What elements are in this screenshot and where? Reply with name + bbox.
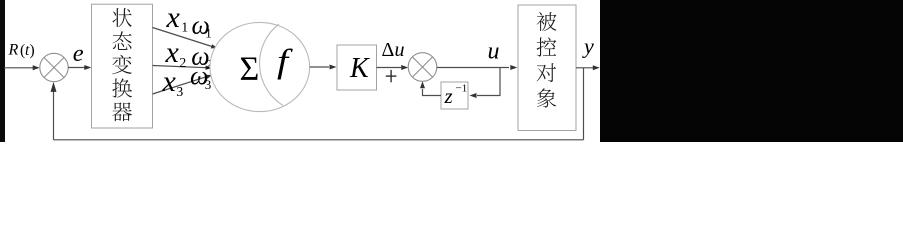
wire x1 to neuron (153, 28, 213, 47)
summing junction S2 (408, 53, 437, 82)
left black margin (0, 0, 5, 142)
svg-text:u: u (395, 39, 405, 61)
arrowhead into K (330, 65, 337, 70)
text 态 (state transformer) (112, 31, 131, 50)
right black region (600, 0, 903, 142)
delay block z^-1 (441, 82, 468, 109)
plant box (518, 5, 576, 131)
text 象 (plant) (537, 88, 556, 107)
arrowhead x2 into neuron (205, 66, 212, 70)
svg-text:R: R (8, 42, 19, 59)
svg-text:z: z (444, 84, 453, 108)
arrowhead into state transformer (84, 65, 91, 70)
text 换 (state transformer) (112, 78, 132, 97)
svg-text:K: K (349, 53, 370, 84)
wire S2 to plant (437, 67, 509, 69)
state transformer box (92, 4, 153, 128)
svg-text:Σ: Σ (240, 51, 260, 88)
wire u tap down to z-block (477, 68, 500, 96)
wire x2 to neuron (153, 66, 207, 68)
svg-text:u: u (488, 38, 500, 64)
wire e to state transformer (68, 67, 85, 69)
svg-text:1: 1 (205, 26, 212, 41)
arrowhead x3 into neuron (206, 75, 213, 79)
arrowhead feedback into S1 (51, 82, 57, 92)
feedback wire bottom (54, 139, 584, 141)
arrowhead x1 into neuron (211, 44, 218, 48)
text 被 (plant) (537, 12, 557, 31)
svg-text:e: e (73, 40, 84, 67)
arrowhead into summing junction S1 (33, 65, 40, 70)
svg-text:−1: −1 (456, 83, 468, 95)
output arrowhead y (593, 65, 600, 70)
wire x3 to neuron (153, 77, 208, 94)
gain block K (337, 45, 377, 90)
wire plant to output (576, 67, 593, 69)
text 控 (plant) (537, 37, 557, 56)
neuron divider arc (259, 24, 283, 106)
arrowhead z feedback into S2 (420, 81, 425, 88)
svg-text:1: 1 (181, 21, 188, 36)
wire neuron to K (310, 66, 329, 68)
svg-text:3: 3 (176, 85, 183, 100)
text 变 (state transformer) (112, 55, 132, 74)
text 对 (plant) (537, 63, 556, 82)
text 状 (state transformer) (112, 8, 131, 27)
svg-text:x: x (162, 65, 177, 98)
arrowhead into plant (510, 65, 517, 70)
svg-text:Δ: Δ (382, 39, 395, 61)
text 器 (state transformer) (112, 102, 132, 121)
wire z-block to S2 (423, 89, 442, 96)
svg-text:2: 2 (179, 56, 186, 71)
wire K to summing junction S2 (377, 67, 402, 69)
summing junction S1 (40, 53, 68, 81)
label plus sign (386, 70, 397, 82)
svg-text:y: y (582, 34, 594, 59)
svg-text:x: x (166, 1, 181, 34)
neuron ellipse U1 (210, 22, 310, 111)
arrowhead into z-block (470, 93, 477, 98)
arrowhead into S2 (401, 65, 408, 70)
svg-text:): ) (30, 42, 35, 59)
feedback wire down from output (583, 68, 585, 140)
svg-text:3: 3 (205, 77, 212, 92)
feedback wire up to S1 (53, 89, 55, 140)
wire R(t) to summing junction (4, 67, 33, 69)
